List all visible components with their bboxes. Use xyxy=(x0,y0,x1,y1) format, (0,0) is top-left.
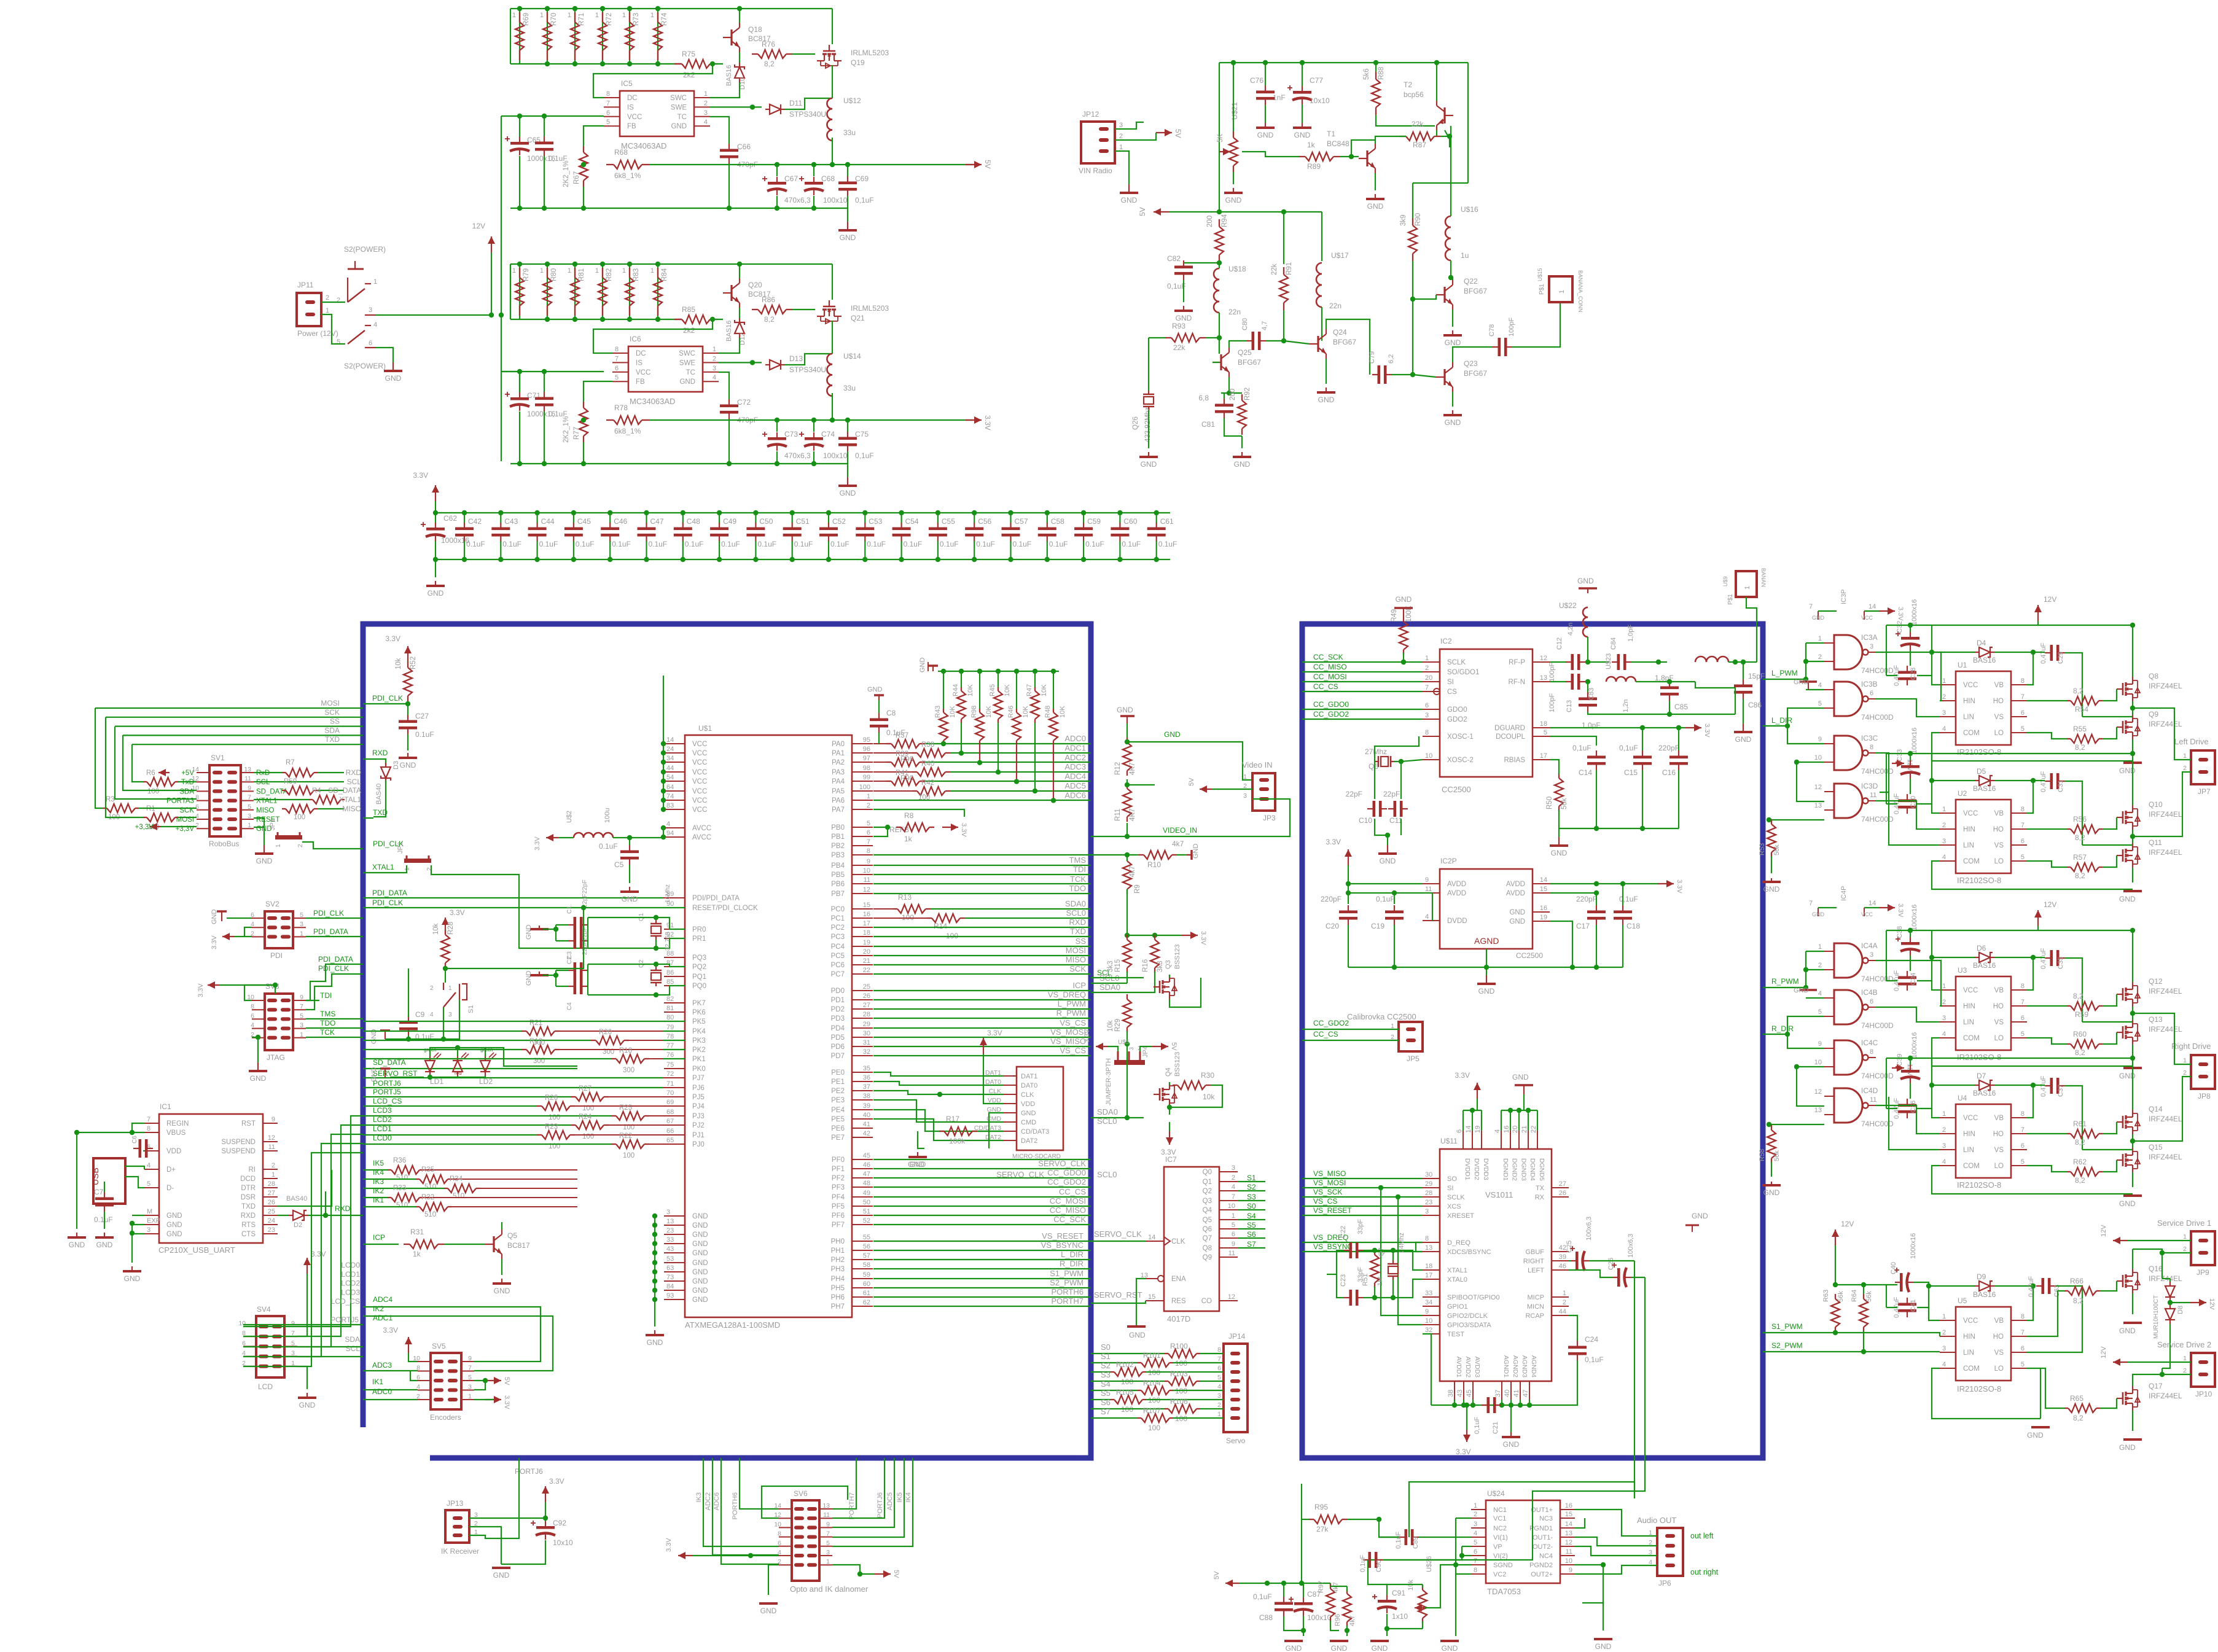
pin 1 MICP xyxy=(1552,1296,1569,1298)
svg-text:C67: C67 xyxy=(784,174,798,183)
svg-text:8,2: 8,2 xyxy=(2075,1048,2085,1057)
svg-text:U$12: U$12 xyxy=(843,96,861,105)
svg-text:SV1: SV1 xyxy=(211,754,225,762)
svg-text:R28: R28 xyxy=(447,922,455,935)
svg-text:85: 85 xyxy=(666,978,674,986)
ground xyxy=(1800,680,1817,683)
svg-text:R71: R71 xyxy=(578,13,585,26)
pin 38 bottom xyxy=(1454,1381,1455,1400)
inductor U$2 100u xyxy=(574,833,584,838)
inductor U$23 1,2n xyxy=(1606,677,1616,682)
resistor R14 100 xyxy=(932,914,960,922)
wire xyxy=(1917,675,1932,676)
svg-text:C3: C3 xyxy=(566,951,573,959)
svg-text:R103: R103 xyxy=(1170,1370,1188,1378)
wire xyxy=(873,1159,1091,1160)
svg-text:GND: GND xyxy=(1367,202,1384,211)
svg-text:470x6,3: 470x6,3 xyxy=(784,451,811,460)
svg-text:CP210X_USB_UART: CP210X_USB_UART xyxy=(158,1245,235,1255)
wire xyxy=(363,817,373,819)
svg-text:SGND: SGND xyxy=(1493,1562,1513,1569)
wire audio left down xyxy=(1644,1277,1646,1489)
svg-text:13: 13 xyxy=(1814,802,1822,809)
svg-text:33u: 33u xyxy=(843,384,856,392)
wire JP2 to crystal xyxy=(431,865,588,948)
net LCD3 wire xyxy=(243,1125,363,1336)
svg-text:SDA: SDA xyxy=(345,1335,360,1344)
svg-text:87: 87 xyxy=(666,959,674,967)
wire xyxy=(918,1131,924,1148)
inductor U$12 33u xyxy=(827,98,832,109)
svg-text:R57: R57 xyxy=(2073,853,2087,862)
supply arrow 3.3V xyxy=(1477,1083,1478,1099)
wire Q25 emitter down xyxy=(1228,377,1230,393)
pin 94 AVCC xyxy=(664,836,685,838)
wire xyxy=(1364,1297,1375,1298)
wire s1pwm to HIN xyxy=(1763,1333,1940,1336)
svg-text:GND: GND xyxy=(525,971,533,986)
ground xyxy=(435,581,436,586)
svg-text:R87: R87 xyxy=(1413,141,1426,149)
wire PE5 to sdcard xyxy=(873,1119,1004,1140)
wire gpio2 xyxy=(1381,1188,1423,1315)
svg-text:R54: R54 xyxy=(2075,705,2088,714)
svg-text:GND: GND xyxy=(493,1571,510,1580)
svg-text:Q3: Q3 xyxy=(1203,1198,1212,1205)
wire xyxy=(306,936,363,937)
supply arrow 3.3V xyxy=(942,827,958,828)
svg-text:10: 10 xyxy=(1425,752,1432,760)
svg-text:100: 100 xyxy=(582,1133,594,1140)
svg-text:4: 4 xyxy=(1217,1383,1221,1390)
svg-text:STPS340U: STPS340U xyxy=(789,110,826,119)
svg-text:U$11: U$11 xyxy=(1440,1137,1458,1145)
svg-text:9: 9 xyxy=(271,1116,275,1123)
wire xosc1 xyxy=(1375,736,1419,762)
svg-text:22k: 22k xyxy=(1412,120,1424,128)
wire c9 xyxy=(1787,726,1824,744)
svg-text:COM: COM xyxy=(1963,858,1980,865)
wire xyxy=(178,781,197,782)
svg-text:1u: 1u xyxy=(1461,251,1469,260)
wire down to R91 xyxy=(1283,212,1284,264)
wire xyxy=(2169,1279,2171,1282)
svg-text:GPIO3/SDATA: GPIO3/SDATA xyxy=(1447,1322,1491,1329)
svg-text:1: 1 xyxy=(650,12,654,19)
wire resistor bottom rail xyxy=(510,63,682,64)
pin 36 PE1 xyxy=(852,1081,873,1082)
resistor R69 xyxy=(519,9,520,64)
resistor R61 8,2 xyxy=(2071,1129,2099,1138)
wire IC3A out to U1 HIN xyxy=(1876,652,1941,701)
wire base xyxy=(713,319,723,320)
svg-text:60: 60 xyxy=(863,1280,870,1288)
wire xyxy=(1140,1046,1152,1051)
pin 33 GND xyxy=(664,1243,685,1244)
svg-text:6: 6 xyxy=(1456,1129,1463,1133)
svg-text:R31: R31 xyxy=(410,1228,424,1236)
supply arrow 3.3V xyxy=(1182,935,1198,936)
supply arrow 12V xyxy=(491,236,492,252)
svg-text:11: 11 xyxy=(823,1511,830,1519)
svg-text:R20: R20 xyxy=(599,1029,612,1036)
svg-text:SCL: SCL xyxy=(346,1344,361,1353)
svg-text:IC7: IC7 xyxy=(1165,1155,1177,1164)
svg-text:37: 37 xyxy=(863,1083,870,1091)
svg-text:42: 42 xyxy=(863,1130,870,1137)
pin 2 Q1 xyxy=(1219,1181,1238,1182)
svg-text:12: 12 xyxy=(1814,1088,1822,1096)
svg-text:C29: C29 xyxy=(2057,652,2064,664)
wire to PQ0 xyxy=(656,986,685,995)
svg-text:GBUF: GBUF xyxy=(1525,1249,1544,1256)
svg-text:3: 3 xyxy=(1425,1208,1429,1215)
svg-text:5V: 5V xyxy=(1188,777,1195,786)
transistor Q21 xyxy=(817,300,842,324)
pin 10 PGND2 xyxy=(1560,1564,1575,1565)
wire portj6 to jp13 xyxy=(469,1458,519,1538)
svg-text:14: 14 xyxy=(1465,1126,1472,1133)
NAND gate IC3A 74HC00D xyxy=(1834,635,1862,669)
supply arrow +3,3V xyxy=(150,826,161,827)
wire xyxy=(1422,1584,1423,1588)
svg-text:75: 75 xyxy=(666,1061,674,1069)
svg-text:SERVO_CLK: SERVO_CLK xyxy=(1038,1159,1086,1168)
wire xyxy=(264,827,265,845)
wire xyxy=(873,1306,1091,1307)
ground xyxy=(1743,723,1744,732)
svg-text:S1_PWM: S1_PWM xyxy=(1050,1269,1084,1278)
wire xyxy=(1481,1110,1482,1131)
svg-text:10k: 10k xyxy=(1203,1093,1215,1101)
svg-text:LCD: LCD xyxy=(258,1382,273,1391)
svg-text:PH7: PH7 xyxy=(831,1303,845,1311)
wire D to C xyxy=(1994,957,2045,958)
pin 2 VC1 xyxy=(1471,1518,1486,1519)
wire xyxy=(1347,1519,1379,1520)
resistor R85 xyxy=(682,315,710,324)
svg-text:HIN: HIN xyxy=(1963,1003,1975,1010)
svg-text:1: 1 xyxy=(622,12,626,19)
resistor R93 22k xyxy=(1171,333,1200,342)
svg-text:SV5: SV5 xyxy=(432,1342,446,1350)
wire Q23 emitter xyxy=(1452,392,1453,407)
resistor R91 22k xyxy=(1279,275,1288,303)
pin 3 xyxy=(241,819,254,820)
pin 29 PD4 xyxy=(852,1027,873,1029)
ground xyxy=(1338,1640,1340,1642)
svg-text:3: 3 xyxy=(248,812,251,820)
svg-text:69: 69 xyxy=(666,1099,674,1106)
pin 7 CS xyxy=(1423,691,1440,692)
capacitor C66 470pF xyxy=(720,149,738,152)
wire 3.3V to VDD xyxy=(983,1054,1004,1104)
pin 20 top xyxy=(1518,1131,1520,1149)
wire xyxy=(1472,1400,1474,1405)
wire xyxy=(1301,1484,1302,1519)
svg-text:R72: R72 xyxy=(606,13,613,26)
wire xyxy=(1771,1162,1772,1177)
pin 3 XRESET xyxy=(1423,1215,1440,1216)
wire COM xyxy=(1932,1368,2040,1419)
svg-text:5V: 5V xyxy=(1174,129,1182,138)
wire xyxy=(663,1058,685,1059)
wire xyxy=(1302,1206,1423,1207)
svg-text:LD2: LD2 xyxy=(479,1077,493,1086)
resistor R18 300 xyxy=(616,1054,644,1063)
svg-text:0,1uF: 0,1uF xyxy=(855,196,874,205)
pin CMD xyxy=(1004,1121,1017,1123)
svg-text:JP9: JP9 xyxy=(2197,1268,2209,1277)
wire xyxy=(1108,1046,1118,1051)
svg-text:1,0pF: 1,0pF xyxy=(1627,625,1634,642)
wire pin2 gnd xyxy=(768,1565,779,1595)
pin 13 XDCS/BSYNC xyxy=(1423,1251,1440,1252)
ground xyxy=(539,972,540,975)
pin 1 VCC xyxy=(1940,684,1956,685)
wire JP11-2 to switch xyxy=(321,302,345,303)
pin 32 TEST xyxy=(1423,1333,1440,1334)
pin 57 PH2 xyxy=(852,1259,873,1260)
pin 6 VS xyxy=(2011,716,2027,717)
resistor R96 4k7 xyxy=(1343,1594,1351,1622)
svg-text:1: 1 xyxy=(300,930,303,937)
wire sv6 left extra xyxy=(762,1486,848,1518)
svg-text:SV2: SV2 xyxy=(265,900,279,908)
wire scl xyxy=(1091,977,1144,978)
pin DAT0 xyxy=(1004,1085,1017,1086)
svg-text:C6: C6 xyxy=(131,1136,138,1144)
svg-text:1: 1 xyxy=(1217,1411,1221,1418)
ground xyxy=(1771,878,1772,882)
pin 52 PF7 xyxy=(852,1224,873,1225)
wire xyxy=(1585,682,1588,692)
wire switch2 to gnd xyxy=(376,348,393,362)
wire xyxy=(252,1037,258,1038)
wire xtal0 xyxy=(1375,1279,1423,1298)
svg-text:Q18: Q18 xyxy=(748,25,762,34)
svg-text:C44: C44 xyxy=(541,517,555,526)
capacitor C4 22pF xyxy=(574,978,577,994)
svg-text:GND: GND xyxy=(428,589,444,598)
svg-text:R52: R52 xyxy=(410,657,417,669)
svg-text:VS_DREQ: VS_DREQ xyxy=(1048,990,1086,999)
svg-text:5: 5 xyxy=(291,1339,295,1347)
svg-text:5V: 5V xyxy=(1213,1571,1220,1580)
svg-text:LCD2: LCD2 xyxy=(341,1279,360,1288)
svg-text:SWC: SWC xyxy=(670,95,687,102)
wire down to Q26 xyxy=(1148,338,1149,384)
svg-text:2: 2 xyxy=(2183,765,2187,772)
svg-text:C16: C16 xyxy=(1662,768,1676,777)
svg-text:C10: C10 xyxy=(1359,816,1372,825)
IC IC2 CC2500 xyxy=(1440,649,1533,777)
svg-text:C41: C41 xyxy=(1910,1299,1917,1312)
resistor R9 4k7 xyxy=(1123,861,1131,889)
svg-text:14: 14 xyxy=(1540,876,1547,884)
svg-text:R47: R47 xyxy=(1026,684,1033,696)
svg-text:10K: 10K xyxy=(1059,706,1066,718)
svg-text:1: 1 xyxy=(650,267,654,275)
svg-text:7: 7 xyxy=(248,794,251,801)
capacitor C43 0.1uF xyxy=(491,528,510,531)
resistor R36 510 xyxy=(391,1166,420,1174)
wire C66 to gnd rail xyxy=(728,419,730,464)
svg-text:C55: C55 xyxy=(942,517,955,526)
pin 11 Q9 xyxy=(1219,1257,1238,1258)
svg-text:Service Drive 1: Service Drive 1 xyxy=(2157,1218,2211,1228)
svg-text:13: 13 xyxy=(1540,674,1547,682)
svg-text:PK4: PK4 xyxy=(692,1028,706,1035)
wire xyxy=(1510,1110,1511,1131)
svg-text:R89: R89 xyxy=(1307,162,1321,171)
wire xyxy=(1558,828,1560,837)
wire VCC feed xyxy=(501,371,604,372)
resistor R52 10k xyxy=(404,668,412,696)
pin 38 PE3 xyxy=(852,1099,873,1101)
wire out2 to JP7-2 xyxy=(2133,772,2191,836)
wire cap bottom xyxy=(847,196,848,208)
wire xyxy=(1351,140,1376,157)
svg-text:Q20: Q20 xyxy=(748,281,762,289)
svg-text:22pF: 22pF xyxy=(1383,790,1400,798)
pin 5 xyxy=(241,809,254,811)
wire xyxy=(1374,1287,1375,1298)
resistor R89 1k xyxy=(1305,152,1334,161)
IC U$1 ATXMEGA128A1-100SMD xyxy=(685,735,852,1317)
wire xyxy=(1392,1280,1394,1298)
svg-text:2: 2 xyxy=(337,297,340,304)
wire xyxy=(275,985,276,994)
svg-text:PH2: PH2 xyxy=(831,1257,845,1264)
pin 7 IS xyxy=(604,106,620,107)
svg-text:SO/GDO1: SO/GDO1 xyxy=(1447,669,1479,676)
svg-text:PORTH6: PORTH6 xyxy=(1052,1287,1084,1296)
wire 12V to PSU1 vcc xyxy=(501,116,502,315)
pin 8 VC2 xyxy=(1471,1573,1486,1575)
wire xyxy=(1127,723,1128,738)
svg-text:PF2: PF2 xyxy=(832,1175,845,1182)
pin 25 PD0 xyxy=(852,990,873,991)
diode D9 BAS16 xyxy=(1975,1281,1994,1291)
pin 10 xyxy=(197,790,209,792)
svg-text:64: 64 xyxy=(666,784,674,791)
svg-text:R8: R8 xyxy=(904,811,914,820)
svg-text:3: 3 xyxy=(1942,838,1946,845)
svg-text:7: 7 xyxy=(867,838,870,846)
wire PB1 xyxy=(873,827,888,836)
connector JP9 Service Drive 1 xyxy=(2191,1231,2215,1265)
svg-text:SO: SO xyxy=(1447,1175,1457,1183)
transistor Q5 BC817 xyxy=(493,1236,494,1252)
svg-text:VS_CS: VS_CS xyxy=(1313,1197,1337,1206)
svg-text:GND: GND xyxy=(1794,679,1809,686)
svg-text:ADC0: ADC0 xyxy=(372,1387,392,1396)
svg-text:LO: LO xyxy=(1994,730,2004,737)
svg-text:GND: GND xyxy=(299,1401,316,1409)
svg-text:AVCC: AVCC xyxy=(692,834,711,841)
pin 86 PQ1 xyxy=(664,976,685,977)
ground flag xyxy=(1685,1225,1699,1226)
pin 18 XTAL1 xyxy=(1423,1269,1440,1271)
supply arrow 3.3V xyxy=(445,918,446,933)
pin 6 GDO0 xyxy=(1423,709,1440,710)
wire xyxy=(2162,1278,2170,1279)
svg-text:PE4: PE4 xyxy=(831,1107,845,1114)
resistor R79 xyxy=(519,264,520,319)
gate driver U4 IR2102SO-8 xyxy=(1956,1104,2011,1178)
wire U17 to Q24 xyxy=(1321,307,1322,341)
svg-text:SD_DATA: SD_DATA xyxy=(328,786,361,795)
pin 64 VCC xyxy=(664,790,685,792)
svg-text:IK5: IK5 xyxy=(373,1159,384,1167)
wire SDA xyxy=(123,735,197,790)
ground GND flag xyxy=(221,911,222,921)
svg-text:1: 1 xyxy=(867,793,870,800)
svg-text:19: 19 xyxy=(863,939,870,946)
wire xyxy=(1886,625,1887,676)
svg-text:S2(POWER): S2(POWER) xyxy=(344,245,386,254)
pin 6 VDD xyxy=(144,1150,159,1151)
wire xyxy=(306,1018,363,1019)
capacitor C9 0.1uF xyxy=(399,1021,418,1024)
svg-text:1: 1 xyxy=(1942,806,1946,813)
svg-text:VCC: VCC xyxy=(692,759,707,766)
pin 4 Q2 xyxy=(1219,1190,1238,1191)
IC IC2P CC2500 AGND xyxy=(1440,869,1533,949)
svg-text:3k3: 3k3 xyxy=(1157,960,1164,972)
svg-text:2: 2 xyxy=(1563,1299,1566,1306)
svg-text:C82: C82 xyxy=(1167,254,1181,263)
wire txd xyxy=(278,1170,332,1206)
wire to PQ2 xyxy=(656,964,685,967)
wire left drop xyxy=(510,9,511,64)
pin 10 Q4 xyxy=(1219,1209,1238,1210)
wire dguard xyxy=(1550,727,1686,728)
resistor R8 100 xyxy=(286,786,314,795)
svg-text:R46: R46 xyxy=(1007,706,1015,718)
wire xyxy=(1302,1178,1423,1179)
svg-text:IK1: IK1 xyxy=(373,1196,384,1204)
svg-text:IR2102SO-8: IR2102SO-8 xyxy=(1957,1180,2001,1190)
svg-text:0.1uF: 0.1uF xyxy=(502,540,521,548)
svg-text:AGND3: AGND3 xyxy=(1521,1355,1528,1377)
wire c25 out xyxy=(1589,1260,1634,1261)
svg-text:PD5: PD5 xyxy=(831,1034,845,1042)
svg-text:C92: C92 xyxy=(553,1519,566,1527)
svg-text:U$5: U$5 xyxy=(1118,1039,1130,1046)
pin 2 HIN xyxy=(1940,1005,1956,1007)
svg-text:SDA0: SDA0 xyxy=(1099,983,1120,992)
wire xyxy=(1303,1616,1304,1631)
svg-text:3.3V: 3.3V xyxy=(1897,607,1904,621)
wire cap top xyxy=(813,420,814,432)
net LCD0 wire xyxy=(243,1153,363,1366)
capacitor C40 1000x16 xyxy=(1900,1273,1903,1292)
svg-text:VS1011: VS1011 xyxy=(1485,1190,1513,1199)
svg-text:PQ1: PQ1 xyxy=(692,973,706,981)
svg-text:15: 15 xyxy=(1148,1293,1155,1301)
svg-text:5: 5 xyxy=(2021,1158,2025,1166)
svg-text:XTAL0: XTAL0 xyxy=(1447,1276,1467,1284)
svg-text:JP11: JP11 xyxy=(297,281,314,289)
svg-text:SS: SS xyxy=(330,717,340,726)
svg-text:10K: 10K xyxy=(1041,684,1048,696)
wire Q17 drain xyxy=(2133,1374,2162,1386)
svg-text:PK1: PK1 xyxy=(692,1056,706,1063)
svg-text:16Mhz: 16Mhz xyxy=(665,884,671,903)
svg-text:PA4: PA4 xyxy=(832,778,845,785)
